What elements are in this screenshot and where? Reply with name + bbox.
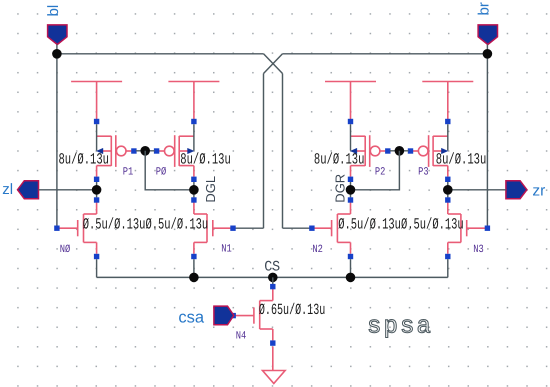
junction right PMOS gates (395, 146, 405, 156)
pin zl label (2, 181, 13, 198)
svg-text:8u/Ø.13u: 8u/Ø.13u (314, 150, 365, 168)
wire zr (448, 189, 506, 191)
instance label P1 (123, 167, 134, 179)
gate pin square N0 (54, 226, 59, 231)
svg-text:8u/Ø.13u: 8u/Ø.13u (436, 150, 487, 168)
junction zr node (443, 185, 453, 195)
wire zr-node column (447, 182, 449, 197)
wire N3 source to rail (447, 259, 449, 277)
ground symbol (263, 371, 286, 384)
pin zr label (532, 183, 545, 200)
junction rail-N4 (268, 273, 278, 283)
transistor P3 (PMOS) (413, 135, 448, 176)
source/bulk wire P2 (350, 124, 352, 150)
value label P2 8u/0.13u (314, 150, 365, 168)
drain pin square P3 (445, 177, 450, 182)
transistor P1 (PMOS) (97, 135, 132, 176)
wire N4 source to ground (272, 347, 274, 371)
svg-text:8u/Ø.13u: 8u/Ø.13u (180, 150, 231, 168)
source pin square N1 (191, 254, 196, 259)
transistor N4 (NMOS) (233, 289, 273, 340)
wire rail to N4 drain (272, 277, 274, 284)
wire bl horizontal (57, 53, 264, 55)
svg-text:N2: N2 (312, 244, 323, 256)
wire DGR column (350, 182, 352, 197)
node label DGL (203, 176, 218, 203)
pin csa (input pin polygon) (214, 306, 234, 325)
value label N2/N3 0.5u/0.13u pair (338, 216, 464, 234)
pin zr (output pin polygon) (506, 181, 527, 199)
svg-text:P1: P1 (123, 167, 134, 179)
wire DGL column (193, 182, 195, 197)
gate pin square P2 (385, 148, 390, 153)
svg-text:DGL: DGL (203, 176, 218, 203)
value label N4 0.65u/0.13u (259, 301, 325, 319)
junction DGR node (346, 185, 356, 195)
wire br diagonal (crossover) (264, 54, 283, 74)
value label N0/N1 0.5u/0.13u pair (83, 216, 209, 234)
bulk arrow P0 (188, 148, 194, 154)
vdd rail symbol above P1 (71, 82, 122, 120)
vdd pin square above P3 (445, 119, 450, 124)
bulk arrow P3 (441, 148, 447, 154)
drain pin square P2 (348, 177, 353, 182)
wire bl center vertical to N2 gate (283, 74, 312, 229)
wire bl pin to junction (56, 45, 58, 54)
svg-text:br: br (476, 2, 493, 15)
svg-text:PØ: PØ (156, 167, 167, 179)
drain pin square N0 (94, 197, 99, 202)
source pin square N3 (445, 254, 450, 259)
svg-text:P3: P3 (418, 167, 429, 179)
pin bl label (45, 5, 62, 17)
junction bl (52, 49, 62, 59)
svg-text:zr: zr (532, 183, 545, 200)
svg-text:N4: N4 (236, 331, 247, 343)
transistor P0 (PMOS) (159, 135, 194, 176)
gate pin square N4 (231, 313, 236, 318)
pin csa label (178, 308, 205, 326)
wire right gates to DGR (351, 151, 400, 190)
wire N1 source to rail (193, 259, 195, 277)
transistor N0 (NMOS) (57, 203, 97, 254)
node label CS (264, 260, 280, 276)
node label DGR (333, 174, 348, 203)
svg-text:N1: N1 (221, 244, 232, 256)
instance label N4 (236, 331, 247, 343)
drain pin square N3 (445, 197, 450, 202)
wire N2 source to rail (350, 259, 352, 277)
wire N0 source to rail (96, 259, 98, 277)
gate pin square N2 (309, 226, 314, 231)
vdd rail symbol above P0 (168, 82, 219, 120)
svg-text:NØ: NØ (60, 244, 71, 256)
instance label P2 (375, 167, 386, 179)
wire zl-node column (96, 182, 98, 197)
svg-text:Ø.65u/Ø.13u: Ø.65u/Ø.13u (259, 301, 325, 319)
wire left gates to DGL (145, 151, 194, 190)
svg-text:Ø.5u/Ø.13uØ.5u/Ø.13u: Ø.5u/Ø.13uØ.5u/Ø.13u (83, 216, 209, 234)
wire CS rail (97, 276, 448, 278)
source/bulk wire P1 (96, 124, 98, 150)
wire P2-P3 gate junction link (390, 150, 409, 152)
svg-text:bl: bl (45, 5, 62, 17)
junction zl node (92, 185, 102, 195)
vdd pin square above P0 (191, 119, 196, 124)
source pin square N4 (270, 340, 275, 345)
wire br pin to junction (486, 45, 488, 54)
transistor N2 (NMOS) (312, 203, 351, 254)
schematic title spsa (367, 314, 433, 341)
svg-text:zl: zl (2, 181, 13, 198)
source pin square N0 (94, 254, 99, 259)
wire zl (39, 189, 97, 191)
gate pin square P3 (408, 148, 413, 153)
drain pin square P0 (191, 177, 196, 182)
instance label N0 (60, 244, 71, 256)
svg-text:P2: P2 (375, 167, 386, 179)
value label P3 8u/0.13u (436, 150, 487, 168)
vdd rail symbol above P2 (325, 82, 376, 120)
drain pin square N1 (191, 197, 196, 202)
vdd rail symbol above P3 (422, 82, 473, 120)
junction br (483, 49, 493, 59)
transistor P2 (PMOS) (351, 135, 386, 176)
instance label N2 (312, 244, 323, 256)
wire bl diagonal (crossover) (264, 54, 283, 74)
svg-text:CS: CS (264, 260, 280, 276)
gate pin square N1 (230, 226, 235, 231)
wire P1-P0 gate junction link (136, 150, 155, 152)
value label P1 8u/0.13u (59, 150, 110, 168)
bulk arrow P1 (97, 148, 103, 154)
svg-text:DGR: DGR (333, 174, 348, 203)
junction DGL node (189, 185, 199, 195)
svg-text:Ø.5u/Ø.13uØ.5u/Ø.13u: Ø.5u/Ø.13uØ.5u/Ø.13u (338, 216, 464, 234)
instance label P0 (156, 167, 167, 179)
svg-text:csa: csa (178, 308, 205, 326)
junction left PMOS gates (140, 146, 150, 156)
gate pin square N3 (485, 226, 490, 231)
transistor N1 (NMOS) (194, 203, 233, 254)
junction rail-N1 (189, 273, 199, 283)
wire br center vertical to N1 gate (233, 74, 264, 229)
drain pin square N4 (270, 284, 275, 289)
pin br (input pin polygon) (478, 25, 497, 45)
drain pin square N2 (348, 197, 353, 202)
svg-text:N3: N3 (473, 244, 484, 256)
source/bulk wire P3 (447, 124, 449, 150)
wire br horizontal (283, 53, 488, 55)
wire bl vertical to N0 gate (56, 54, 58, 228)
vdd pin square above P2 (348, 119, 353, 124)
gate pin square P1 (131, 148, 136, 153)
pin bl (input pin polygon) (48, 25, 67, 45)
vdd pin square above P1 (94, 119, 99, 124)
instance label P3 (418, 167, 429, 179)
bulk arrow P2 (351, 148, 357, 154)
svg-text:8u/Ø.13u: 8u/Ø.13u (59, 150, 110, 168)
instance label N3 (473, 244, 484, 256)
junction rail-N2 (346, 273, 356, 283)
transistor N3 (NMOS) (448, 203, 488, 254)
source pin square N2 (348, 254, 353, 259)
pin zl (output pin polygon) (18, 181, 39, 199)
gate pin square P0 (154, 148, 159, 153)
source/bulk wire P0 (193, 124, 195, 150)
wire br vertical to N3 gate (486, 54, 488, 228)
instance label N1 (221, 244, 232, 256)
pin br label (476, 2, 493, 15)
drain pin square P1 (94, 177, 99, 182)
value label P0 8u/0.13u (180, 150, 231, 168)
svg-text:spsa: spsa (367, 314, 433, 341)
